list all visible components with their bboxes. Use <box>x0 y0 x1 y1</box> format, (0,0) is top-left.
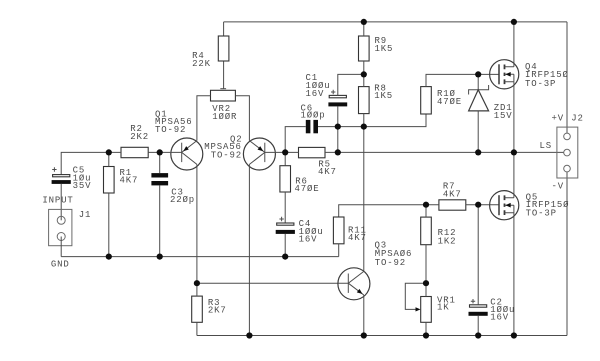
wire Q5 drain to output rail <box>513 152 515 197</box>
wire mid node line to R10 <box>338 114 426 127</box>
wire top rail +V <box>224 21 567 23</box>
connector J1 <box>49 209 92 245</box>
label LS <box>540 141 553 151</box>
wire Q5 gate <box>478 204 499 206</box>
transistor Q2 MPSA56 <box>204 135 275 171</box>
wire VR2 right to Q2 emitter <box>235 96 249 141</box>
transistor Q1 MPSA56 <box>155 110 203 170</box>
wire Q2 collector down to -V rail <box>248 164 250 335</box>
wire C-node to output rail <box>337 127 339 153</box>
connector J2 <box>557 114 584 178</box>
resistor R4 <box>192 36 229 69</box>
resistor R6 <box>280 166 320 194</box>
svg-text:1K5: 1K5 <box>374 91 393 101</box>
resistor R9 <box>359 36 394 61</box>
wire Q4 source to output rail <box>513 82 515 153</box>
resistor R3 <box>192 296 227 322</box>
wire bottom -V rail <box>197 335 567 337</box>
svg-text:+V: +V <box>552 114 565 124</box>
svg-text:47ØE: 47ØE <box>295 184 320 194</box>
wire J1 bottom to GND rail <box>60 237 62 257</box>
wire C2 bottom to -V rail <box>477 316 479 336</box>
svg-text:15V: 15V <box>494 111 513 121</box>
svg-text:16V: 16V <box>306 89 325 99</box>
resistor R11 <box>333 217 366 244</box>
wire R3 leads <box>196 283 198 335</box>
svg-text:GND: GND <box>51 260 70 270</box>
wire VR2 left to Q1 emitter <box>197 96 211 141</box>
wire Q1 base <box>160 151 182 153</box>
svg-text:J2: J2 <box>571 114 584 124</box>
wire Q4 drain to +V rail <box>513 22 515 67</box>
wire output rail to J2 LS <box>338 151 564 153</box>
svg-text:TO-92: TO-92 <box>155 125 186 135</box>
wire C6 right to C1 node <box>318 126 338 128</box>
zener diode ZD1 <box>469 74 513 121</box>
svg-text:16V: 16V <box>490 313 509 323</box>
wire C4 bottom to GND rail <box>284 234 286 257</box>
svg-text:TO-3P: TO-3P <box>525 79 556 89</box>
svg-text:1K: 1K <box>437 303 450 313</box>
wire C3 leads <box>159 152 161 256</box>
capacitor C5 <box>52 166 92 192</box>
wire Q1 collector down to node <box>196 164 198 283</box>
wire R4 bottom lead to VR2 wiper <box>223 61 225 89</box>
resistor R7 <box>439 182 466 211</box>
svg-text:2K7: 2K7 <box>208 306 227 316</box>
wire mid GND rail <box>61 256 339 258</box>
capacitor C4 <box>276 217 324 245</box>
resistor R12 <box>421 217 457 246</box>
wire input node: C5 top to R2/R1 node <box>61 152 109 174</box>
wire R6 leads <box>284 152 286 223</box>
wire R1 leads <box>108 152 110 256</box>
wire R11 top line to R7/R12 node <box>339 205 426 217</box>
svg-text:INPUT: INPUT <box>42 195 73 205</box>
wire Q5 source to -V rail <box>513 213 515 336</box>
svg-text:1K2: 1K2 <box>438 236 457 246</box>
wire Q3 emitter down to -V rail <box>363 295 365 336</box>
resistor R2 <box>121 124 149 158</box>
svg-text:4K7: 4K7 <box>318 167 337 177</box>
svg-text:35V: 35V <box>73 181 92 191</box>
wire R7 leads <box>426 204 478 206</box>
svg-text:22K: 22K <box>192 59 211 69</box>
mosfet Q5 IRFP150 <box>490 191 570 220</box>
svg-text:1ØØp: 1ØØp <box>301 111 326 121</box>
wire C1 bottom to mid node <box>337 106 339 126</box>
wire R5 leads <box>285 151 338 153</box>
wire R12 leads <box>425 205 427 284</box>
svg-text:1ØØR: 1ØØR <box>212 112 237 122</box>
wire Q3 collector up to R8 node <box>363 127 365 272</box>
svg-text:1K5: 1K5 <box>375 44 394 54</box>
label -V <box>552 181 565 191</box>
mosfet Q4 IRFP150 <box>490 60 569 89</box>
label INPUT <box>42 195 73 205</box>
wire R9 leads <box>363 22 365 75</box>
wire VR1 leads <box>425 283 427 335</box>
svg-text:J1: J1 <box>79 210 92 220</box>
wire R4 top lead <box>223 22 225 36</box>
wire R8 leads <box>363 74 365 126</box>
svg-text:TO-92: TO-92 <box>375 258 406 268</box>
wire ZD1 anode to output rail <box>477 111 479 152</box>
wire +V drop to J2 <box>566 22 568 133</box>
wire C1 top to R9/R8 node <box>338 74 364 95</box>
wire Q3 base from Q1 collector node <box>197 282 348 284</box>
resistor R1 <box>104 167 139 194</box>
svg-text:47ØE: 47ØE <box>437 97 462 107</box>
svg-text:4K7: 4K7 <box>443 190 462 200</box>
svg-text:22Øp: 22Øp <box>170 195 195 205</box>
wire -V rise to J2 <box>566 172 568 336</box>
capacitor C2 <box>469 298 516 323</box>
svg-text:4K7: 4K7 <box>120 176 139 186</box>
wire R11 bottom to GND rail <box>338 244 340 257</box>
svg-text:16V: 16V <box>299 235 318 245</box>
svg-text:-V: -V <box>552 181 565 191</box>
label GND <box>51 260 70 270</box>
wire C2 top to Q5 gate node <box>477 205 479 305</box>
wire Q4 gate <box>478 73 499 75</box>
resistor R8 <box>359 83 394 113</box>
svg-text:LS: LS <box>540 141 553 151</box>
label +V <box>552 114 565 124</box>
wire R10 top to Q4 gate node <box>426 74 478 86</box>
svg-text:2K2: 2K2 <box>130 132 149 142</box>
potentiometer VR2 <box>211 89 238 122</box>
potentiometer VR1 <box>405 283 455 322</box>
wire C5 bottom to J1 <box>60 184 62 220</box>
svg-text:TO-92: TO-92 <box>211 151 242 161</box>
transistor Q3 MPSA06 <box>338 241 412 300</box>
svg-text:TO-3P: TO-3P <box>526 208 557 218</box>
capacitor C3 <box>151 173 195 205</box>
capacitor C1 <box>306 73 348 106</box>
resistor R5 <box>299 147 337 177</box>
wire R2 leads <box>109 151 160 153</box>
wire C6 left to Q2 base node <box>285 127 306 153</box>
resistor R10 <box>421 87 462 114</box>
capacitor C6 <box>301 103 326 133</box>
wire Q2 base <box>265 151 285 153</box>
